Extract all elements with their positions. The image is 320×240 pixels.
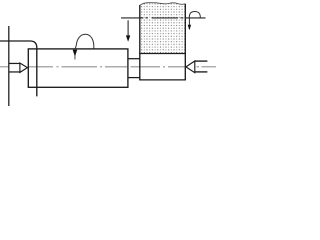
- journal top / wheel bottom contact line: [139, 53, 186, 55]
- wheel wavy top edge: [140, 3, 186, 6]
- tailstock center body: [195, 60, 208, 62]
- journal / wheel shared right edge: [184, 4, 186, 80]
- wheel rotation arrow: [188, 18, 190, 29]
- wheel rotation arc: [189, 12, 200, 19]
- headstock faceplate line: [8, 26, 10, 106]
- grinding wheel (stippled, wavy broken top): [140, 3, 186, 54]
- workpiece body (large cylinder): [28, 49, 128, 87]
- workpiece rotation arc: [75, 34, 94, 48]
- workpiece rotation arrow: [74, 49, 76, 59]
- wheel spindle line (solid left part): [121, 17, 143, 19]
- infeed arrow: [127, 20, 129, 39]
- journal bottom line: [139, 79, 186, 81]
- drive dog arm (rounded hook over workpiece left end): [0, 41, 37, 96]
- step section (reduced diameter): [128, 58, 140, 60]
- tailstock center cone: [186, 61, 195, 73]
- wheel spindle line (solid right part): [185, 17, 205, 19]
- main centerline (workpiece axis, dash-dot gray): [0, 66, 216, 68]
- wheel spindle line (dash-dot inside wheel): [145, 17, 147, 19]
- journal / wheel shared left edge: [139, 5, 141, 80]
- headstock dead center: [9, 62, 20, 64]
